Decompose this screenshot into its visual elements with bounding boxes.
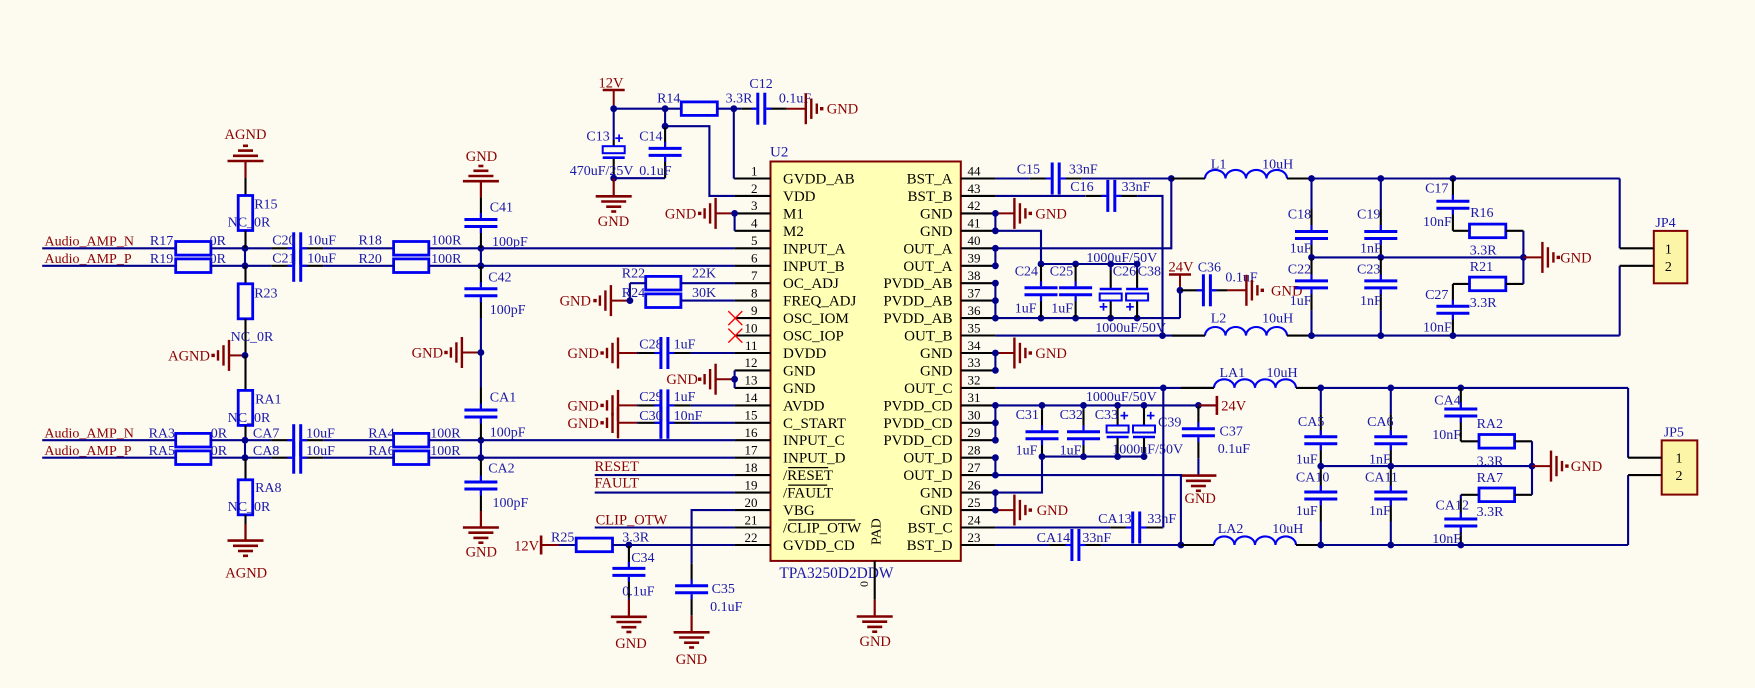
power port 12V bottom: [514, 536, 559, 555]
svg-text:1nF: 1nF: [1369, 504, 1391, 519]
pin 31 PVDD_CD: [883, 390, 995, 414]
capacitor C27 10nF: [1423, 284, 1469, 336]
svg-text:NC_0R: NC_0R: [231, 330, 274, 345]
svg-text:10nF: 10nF: [674, 409, 703, 424]
wire line4 RA5 to CA8: [211, 457, 271, 459]
pin 18 /RESET: [735, 460, 833, 484]
svg-text:OUT_D: OUT_D: [903, 468, 952, 484]
svg-text:C17: C17: [1425, 182, 1448, 197]
ground GND at R22 R24: [560, 283, 634, 316]
svg-text:3.3R: 3.3R: [1470, 244, 1498, 259]
svg-text:RA2: RA2: [1477, 417, 1503, 432]
svg-text:C27: C27: [1425, 288, 1448, 303]
net label RESET: [595, 459, 639, 475]
wire line1-line2 link at x481: [480, 248, 482, 265]
inductor L2 10uH: [1172, 312, 1312, 336]
svg-text:R22: R22: [622, 267, 645, 282]
svg-text:R25: R25: [551, 530, 574, 545]
svg-text:23: 23: [968, 530, 981, 545]
capacitor CA10 1uF: [1296, 466, 1337, 545]
ground GND at pins 12 13: [666, 364, 738, 395]
svg-text:12V: 12V: [599, 76, 625, 92]
svg-text:41: 41: [968, 216, 981, 231]
svg-text:GND: GND: [859, 634, 890, 650]
svg-text:12: 12: [745, 355, 758, 370]
wire R25 to GVDD_CD: [613, 542, 735, 549]
wire C16 to OUT_B: [1137, 196, 1166, 339]
svg-text:10uH: 10uH: [1262, 158, 1293, 173]
capacitor C35 0.1uF: [675, 563, 743, 615]
wire mid gnd rail top block: [1308, 254, 1527, 261]
svg-text:VDD: VDD: [783, 189, 816, 205]
svg-text:1nF: 1nF: [1360, 242, 1382, 257]
svg-text:1uF: 1uF: [674, 390, 696, 405]
resistor R21 3.3R: [1453, 257, 1524, 311]
wire audio line4 left: [42, 457, 176, 459]
wire line4 RA6 to INPUT_D: [429, 454, 735, 461]
capacitor C14 0.1uF: [639, 109, 681, 179]
pin 37 PVDD_AB: [883, 285, 995, 309]
svg-text:GND: GND: [1560, 250, 1591, 266]
svg-text:PVDD_CD: PVDD_CD: [883, 398, 952, 414]
svg-text:33nF: 33nF: [1147, 512, 1176, 527]
svg-text:PVDD_AB: PVDD_AB: [883, 276, 952, 292]
capacitor C16 33nF: [1070, 180, 1150, 212]
svg-text:C37: C37: [1220, 425, 1243, 440]
svg-text:0R: 0R: [210, 234, 227, 249]
svg-text:FREQ_ADJ: FREQ_ADJ: [783, 294, 857, 310]
svg-text:1000uF/50V: 1000uF/50V: [1086, 390, 1157, 405]
svg-text:C31: C31: [1016, 408, 1039, 423]
svg-text:RA4: RA4: [368, 427, 394, 442]
net label Audio_AMP_P bottom: [44, 444, 131, 459]
wire audio line3 left: [42, 439, 176, 441]
svg-text:GND: GND: [1035, 346, 1066, 362]
wire VDD feed: [665, 126, 735, 196]
svg-text:25: 25: [968, 495, 981, 510]
wire line2 R19 to C21: [211, 262, 271, 269]
ground pad GND: [857, 600, 893, 650]
svg-text:GND: GND: [920, 346, 953, 362]
resistor R18 100R: [359, 234, 463, 256]
svg-text:GND: GND: [920, 486, 953, 502]
wire out rail top bottom-block: [1317, 385, 1628, 392]
ground GND below C35: [674, 616, 710, 668]
ground GND at pins 34 33: [992, 338, 1067, 374]
svg-text:16: 16: [745, 425, 759, 440]
svg-text:GND: GND: [1184, 491, 1215, 507]
svg-text:1uF: 1uF: [1015, 302, 1037, 317]
svg-text:9: 9: [751, 303, 758, 318]
capacitor CA13 33nF: [1098, 512, 1176, 544]
svg-text:C36: C36: [1198, 261, 1221, 276]
resistor RA1 NC_0R: [228, 355, 282, 440]
svg-text:C41: C41: [490, 201, 513, 216]
svg-text:32: 32: [968, 373, 981, 388]
capacitor CA14 33nF: [1037, 529, 1181, 561]
svg-text:33nF: 33nF: [1069, 163, 1098, 178]
wire PVDD_CD pins join: [992, 402, 999, 444]
svg-text:R15: R15: [254, 198, 277, 213]
svg-text:33nF: 33nF: [1082, 531, 1111, 546]
svg-text:L2: L2: [1211, 312, 1227, 327]
svg-text:10nF: 10nF: [1423, 215, 1452, 230]
svg-text:1uF: 1uF: [1290, 242, 1312, 257]
svg-text:CA6: CA6: [1367, 415, 1393, 430]
svg-text:C15: C15: [1017, 163, 1040, 178]
svg-text:LA2: LA2: [1218, 522, 1244, 537]
wire BST_A: [995, 177, 1171, 179]
svg-text:22: 22: [745, 530, 758, 545]
svg-text:U2: U2: [770, 145, 788, 161]
capacitor C20 10uF: [271, 232, 336, 264]
resistor RA5 0R: [149, 444, 228, 465]
svg-text:27: 27: [968, 460, 982, 475]
svg-text:C34: C34: [631, 551, 654, 566]
svg-text:C20: C20: [272, 234, 295, 249]
svg-text:C14: C14: [639, 130, 662, 145]
svg-text:GND: GND: [920, 206, 953, 222]
ground GND right of C12: [787, 93, 858, 124]
svg-text:PVDD_CD: PVDD_CD: [883, 433, 952, 449]
svg-text:GND: GND: [783, 381, 816, 397]
capacitor C23 1nF: [1357, 257, 1397, 335]
svg-text:44: 44: [968, 163, 982, 178]
svg-text:33: 33: [968, 355, 981, 370]
svg-text:10: 10: [745, 320, 758, 335]
ground GND at C28: [567, 338, 637, 369]
svg-text:1uF: 1uF: [1296, 504, 1318, 519]
svg-text:OUT_A: OUT_A: [903, 241, 952, 257]
svg-text:NC_0R: NC_0R: [228, 411, 271, 426]
wire VBG to C35: [692, 510, 735, 563]
svg-text:NC_0R: NC_0R: [228, 216, 271, 231]
svg-text:22K: 22K: [692, 267, 716, 282]
svg-text:GVDD_AB: GVDD_AB: [783, 172, 855, 188]
wire out rail bottom top-block: [1308, 332, 1620, 339]
svg-text:470uF/25V: 470uF/25V: [570, 164, 634, 179]
capacitor CA11 1nF: [1365, 466, 1407, 545]
pin 38 PVDD_AB: [883, 268, 995, 292]
pin 19 /FAULT: [735, 477, 833, 501]
svg-text:37: 37: [968, 285, 982, 300]
svg-text:OUT_C: OUT_C: [904, 381, 952, 397]
wire line1-line2 link at x245: [244, 248, 246, 265]
ground GND right of C36: [1227, 275, 1302, 306]
pin 1 GVDD_AB: [735, 163, 855, 187]
svg-text:GND: GND: [560, 294, 591, 310]
svg-text:OSC_IOM: OSC_IOM: [783, 311, 849, 327]
svg-text:GND: GND: [567, 398, 598, 414]
capacitor C41 100pF: [464, 197, 528, 250]
svg-text:AGND: AGND: [225, 566, 267, 582]
ground GND at C29: [567, 390, 637, 421]
svg-text:24V: 24V: [1169, 260, 1195, 276]
svg-text:L1: L1: [1211, 158, 1227, 173]
pin 12 GND: [735, 355, 816, 379]
svg-text:20: 20: [745, 495, 758, 510]
svg-text:0.1uF: 0.1uF: [639, 164, 672, 179]
svg-text:GND: GND: [783, 363, 816, 379]
svg-text:CA1: CA1: [490, 391, 516, 406]
net label Audio_AMP_N top: [45, 235, 134, 250]
svg-text:10uH: 10uH: [1272, 522, 1303, 537]
wire out rail bottom bottom-block: [1317, 542, 1628, 549]
svg-text:AGND: AGND: [225, 127, 267, 143]
svg-text:GND: GND: [466, 149, 497, 165]
svg-text:18: 18: [745, 460, 758, 475]
svg-text:R17: R17: [150, 234, 173, 249]
wire PVDD_AB rail: [995, 315, 1180, 322]
svg-text:36: 36: [968, 303, 982, 318]
wire JP4 pin1 feed: [1619, 179, 1621, 249]
svg-text:14: 14: [745, 390, 759, 405]
svg-text:40: 40: [968, 233, 981, 248]
svg-text:PVDD_AB: PVDD_AB: [883, 294, 952, 310]
svg-text:12V: 12V: [514, 538, 540, 554]
svg-text:BST_D: BST_D: [907, 538, 953, 554]
wire GVDD_AB feed: [733, 109, 736, 179]
wire JP5 pin1 feed: [1627, 388, 1629, 458]
capacitor C33 1000uF/50V: [1086, 390, 1157, 457]
pin 16 INPUT_C: [735, 425, 845, 449]
svg-text:35: 35: [968, 320, 981, 335]
ground GND at pins M1 M2: [665, 198, 738, 231]
inductor LA1 10uH: [1181, 366, 1321, 388]
svg-text:GND: GND: [412, 346, 443, 362]
wire line2 R20 to INPUT_B: [429, 262, 735, 269]
net label Audio_AMP_N bottom: [44, 427, 133, 442]
pin 29 PVDD_CD: [883, 425, 995, 449]
svg-text:10uF: 10uF: [307, 234, 336, 249]
svg-text:R14: R14: [657, 92, 680, 107]
wire 12V rail: [610, 105, 681, 112]
connector JP5: [1628, 426, 1697, 495]
capacitor CA12 10nF: [1432, 495, 1477, 547]
svg-text:19: 19: [745, 477, 758, 492]
pin 6 INPUT_B: [735, 251, 845, 275]
svg-text:AGND: AGND: [168, 348, 210, 364]
svg-text:15: 15: [745, 408, 758, 423]
svg-text:CA5: CA5: [1298, 415, 1324, 430]
capacitor C28 1uF: [637, 337, 735, 369]
svg-text:6: 6: [751, 251, 758, 266]
svg-text:INPUT_A: INPUT_A: [783, 241, 846, 257]
wire 12V to R25: [559, 544, 576, 546]
svg-text:GVDD_CD: GVDD_CD: [783, 538, 855, 554]
svg-text:C35: C35: [712, 582, 735, 597]
pin 13 GND: [735, 373, 816, 397]
net label FAULT: [595, 475, 639, 491]
power port 24V top: [1169, 260, 1195, 319]
ground GND mid rail bottom: [1532, 451, 1602, 482]
wire C42 to GND mid: [480, 318, 482, 353]
svg-text:AVDD: AVDD: [783, 398, 825, 414]
wire OUT_D pins join: [992, 454, 999, 478]
svg-text:1nF: 1nF: [1360, 294, 1382, 309]
svg-text:4: 4: [751, 216, 758, 231]
svg-text:VBG: VBG: [783, 503, 815, 519]
svg-text:GND: GND: [598, 214, 629, 230]
pin 7 OC_ADJ: [735, 268, 839, 292]
pin 43 BST_B: [907, 181, 995, 205]
svg-text:10uH: 10uH: [1262, 312, 1293, 327]
svg-text:C16: C16: [1070, 180, 1093, 195]
wire mid gnd rail bottom block: [1317, 463, 1535, 470]
wire out rail top: [1308, 175, 1620, 182]
svg-text:OUT_A: OUT_A: [903, 259, 952, 275]
svg-text:42: 42: [968, 198, 981, 213]
svg-text:OUT_B: OUT_B: [904, 329, 952, 345]
svg-text:GND: GND: [666, 372, 697, 388]
svg-text:PVDD_AB: PVDD_AB: [883, 311, 952, 327]
ground GND mid rail top: [1523, 242, 1591, 273]
pin 28 OUT_D: [903, 443, 995, 467]
pin 24 BST_C: [907, 512, 995, 536]
capacitor C17 10nF: [1423, 179, 1469, 231]
svg-text:0.1uF: 0.1uF: [710, 600, 743, 615]
resistor RA6 100R: [368, 444, 461, 465]
svg-text:1uF: 1uF: [1016, 444, 1038, 459]
inductor LA2 10uH: [1181, 522, 1321, 545]
svg-text:100pF: 100pF: [490, 303, 526, 318]
svg-text:1: 1: [1676, 452, 1683, 467]
svg-text:C33: C33: [1095, 408, 1118, 423]
svg-text:39: 39: [968, 251, 981, 266]
pin 41 GND: [920, 216, 995, 240]
svg-text:GND: GND: [1571, 459, 1602, 475]
svg-text:GND: GND: [920, 224, 953, 240]
svg-text:RESET: RESET: [595, 459, 639, 475]
svg-text:/CLIP_OTW: /CLIP_OTW: [783, 521, 862, 537]
svg-text:5: 5: [751, 233, 758, 248]
svg-text:1uF: 1uF: [1296, 453, 1318, 468]
svg-text:10nF: 10nF: [1423, 321, 1452, 336]
svg-text:CA8: CA8: [253, 444, 279, 459]
svg-text:7: 7: [751, 268, 758, 283]
capacitor C32 1uF: [1060, 405, 1100, 458]
svg-text:C12: C12: [749, 77, 772, 92]
resistor RA3 0R: [149, 427, 228, 447]
pin 25 GND: [920, 495, 995, 519]
pin 44 BST_A: [907, 163, 996, 187]
capacitor CA4 10nF: [1432, 388, 1477, 443]
svg-text:RA3: RA3: [149, 427, 175, 442]
svg-text:C13: C13: [586, 130, 609, 145]
pin 34 GND: [920, 338, 995, 362]
svg-text:100R: 100R: [431, 234, 462, 249]
svg-text:C22: C22: [1288, 263, 1311, 278]
svg-text:INPUT_D: INPUT_D: [783, 451, 846, 467]
resistor R22 22K: [622, 267, 735, 290]
ground GND at C30: [567, 407, 637, 438]
svg-text:CA11: CA11: [1365, 471, 1398, 486]
wire OUT_C line: [995, 385, 1214, 392]
svg-text:2: 2: [751, 181, 758, 196]
svg-text:24: 24: [968, 512, 982, 527]
svg-text:0.1uF: 0.1uF: [622, 585, 655, 600]
ground GND at pins 42 41: [992, 198, 1067, 234]
pin 40 OUT_A: [903, 233, 995, 257]
wire GND 41 to cap rail: [995, 231, 1041, 264]
wire line1 C20 to R18: [323, 247, 393, 249]
svg-text:100pF: 100pF: [493, 496, 529, 511]
wire line3 RA3 to CA7: [211, 439, 271, 441]
wire audio line1 left: [42, 247, 176, 249]
power port 12V top: [599, 76, 625, 109]
svg-text:2: 2: [1665, 260, 1672, 275]
svg-text:C28: C28: [639, 338, 662, 353]
svg-text:CA4: CA4: [1434, 394, 1460, 409]
svg-text:26: 26: [968, 477, 982, 492]
svg-text:31: 31: [968, 390, 981, 405]
svg-text:1uF: 1uF: [1290, 294, 1312, 309]
ground GND at pins 26 25: [992, 489, 1068, 525]
svg-text:CA10: CA10: [1296, 471, 1329, 486]
svg-text:28: 28: [968, 443, 981, 458]
power port AGND bottom: [225, 524, 267, 582]
svg-text:C30: C30: [639, 409, 662, 424]
svg-text:RA5: RA5: [149, 444, 175, 459]
no-connect X pin 10: [728, 329, 742, 343]
svg-text:RA7: RA7: [1477, 471, 1503, 486]
svg-text:BST_C: BST_C: [907, 521, 952, 537]
svg-text:29: 29: [968, 425, 981, 440]
pin 39 OUT_A: [903, 251, 995, 275]
svg-text:OUT_D: OUT_D: [903, 451, 952, 467]
resistor R23 NC_0R: [231, 266, 278, 356]
pin 0 PAD: [857, 518, 885, 599]
wire line3-line4 link at x481: [480, 440, 482, 458]
svg-text:CLIP_OTW: CLIP_OTW: [596, 513, 668, 529]
capacitor CA7 10uF: [253, 424, 335, 456]
svg-text:24V: 24V: [1221, 398, 1247, 414]
svg-text:CA12: CA12: [1436, 499, 1469, 514]
wire C13-C14 bottom link: [610, 175, 665, 182]
svg-text:INPUT_B: INPUT_B: [783, 259, 845, 275]
svg-text:GND: GND: [1037, 503, 1068, 519]
pin 33 GND: [920, 355, 995, 379]
svg-text:RA1: RA1: [255, 393, 281, 408]
wire PVDD_CD rail: [995, 402, 1217, 409]
ground GND below CA2: [463, 511, 499, 561]
no-connect X pin 9: [728, 311, 742, 325]
svg-text:33nF: 33nF: [1122, 180, 1151, 195]
resistor R19 0R: [150, 252, 227, 273]
svg-text:3.3R: 3.3R: [1470, 296, 1498, 311]
svg-text:PAD: PAD: [870, 518, 885, 545]
power port GND top mid: [463, 149, 499, 197]
power port AGND left mid: [168, 340, 248, 371]
svg-text:INPUT_C: INPUT_C: [783, 433, 845, 449]
svg-text:0.1uF: 0.1uF: [1218, 442, 1251, 457]
power port 24V bottom: [1198, 396, 1246, 415]
wire FAULT: [595, 492, 735, 494]
capacitor C19 1nF: [1357, 179, 1397, 258]
svg-text:BST_A: BST_A: [907, 172, 953, 188]
svg-text:34: 34: [968, 338, 982, 353]
capacitor C42 100pF: [464, 266, 525, 318]
resistor RA4 100R: [368, 427, 461, 447]
wire line1 R17 to C20: [211, 245, 271, 252]
svg-text:R19: R19: [150, 252, 173, 267]
svg-text:NC_0R: NC_0R: [228, 500, 271, 515]
svg-text:3.3R: 3.3R: [1477, 455, 1505, 470]
svg-text:OC_ADJ: OC_ADJ: [783, 276, 839, 292]
svg-text:C_START: C_START: [783, 416, 846, 432]
resistor R14 3.3R: [657, 92, 753, 116]
svg-text:1uF: 1uF: [1051, 302, 1073, 317]
